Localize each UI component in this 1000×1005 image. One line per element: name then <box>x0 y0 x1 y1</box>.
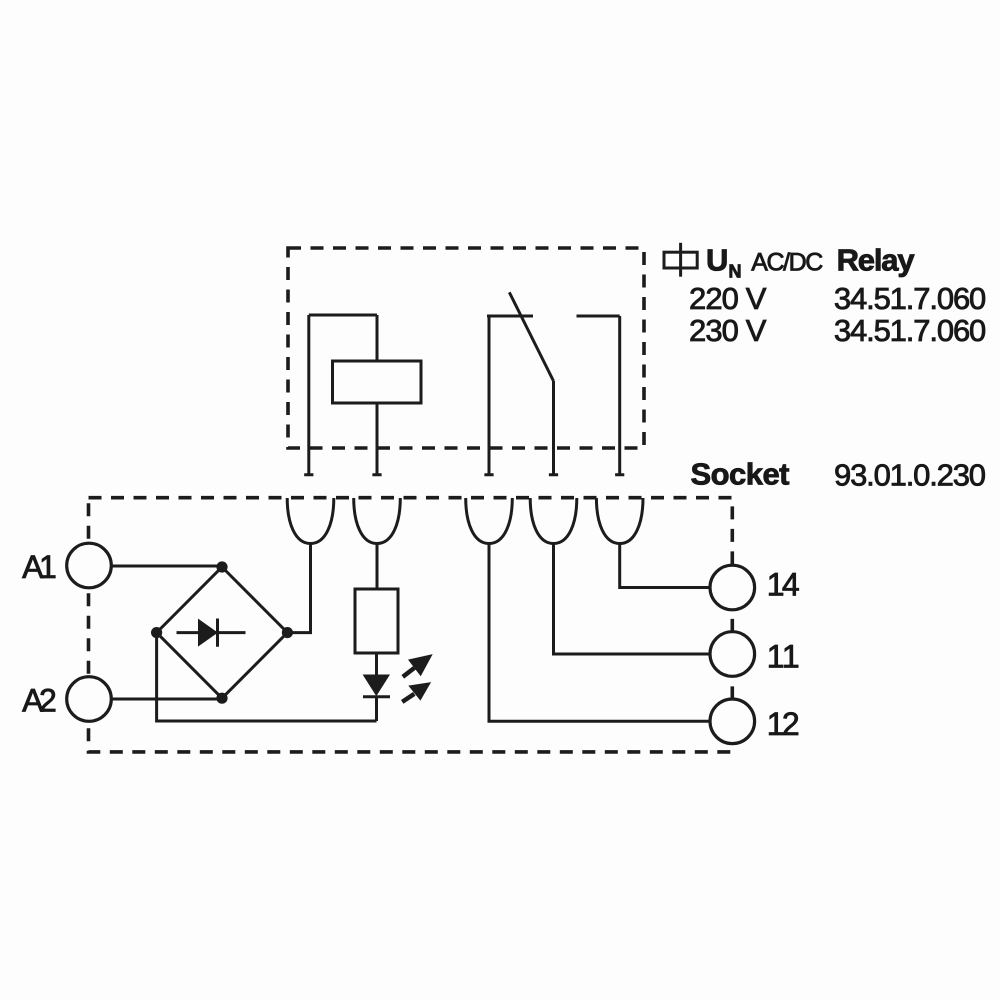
relay coil upper lead <box>376 315 379 361</box>
relay coil lead lower <box>372 403 381 475</box>
resistor R1 <box>355 589 398 653</box>
socket contact cup 4 <box>530 498 577 544</box>
wire cup1 to bridge + <box>287 544 310 633</box>
terminal A1 <box>67 543 112 588</box>
socket contact cup 5 <box>596 498 643 544</box>
contact moving lead 14 <box>549 381 558 475</box>
svg-text:220 V: 220 V <box>689 281 767 316</box>
junction dot top <box>216 561 227 572</box>
wire LED to bottom rail <box>375 697 378 721</box>
socket contact cup 2 <box>354 498 401 544</box>
relay coil body <box>333 361 422 403</box>
relay coil K lead left <box>304 315 313 475</box>
socket dashed enclosure <box>89 498 733 752</box>
socket contact cup 1 <box>287 498 334 544</box>
LED arrow 2 <box>402 682 431 702</box>
svg-text:11: 11 <box>767 639 800 675</box>
wire bridge left to bottom rail <box>157 633 377 721</box>
svg-text:14: 14 <box>767 567 800 603</box>
svg-text:34.51.7.060: 34.51.7.060 <box>834 313 986 348</box>
relay coil top wire <box>309 314 377 317</box>
LED arrow 1 <box>403 654 433 677</box>
wire cup2 to resistor <box>376 544 379 590</box>
wire A2 to bridge bottom <box>111 698 222 701</box>
contact fixed lead 12 <box>615 316 624 475</box>
svg-text:AC/DC: AC/DC <box>751 249 823 277</box>
bridge diode triangle <box>199 620 218 646</box>
svg-text:Socket: Socket <box>691 457 790 492</box>
svg-text:93.01.0.230: 93.01.0.230 <box>834 458 986 493</box>
LED triangle <box>364 675 390 695</box>
junction dot left <box>151 627 162 638</box>
svg-text:A2: A2 <box>22 683 57 719</box>
svg-text:Relay: Relay <box>837 243 916 278</box>
contact top bar left <box>487 315 533 318</box>
wire cup4 to terminal 11 <box>554 544 710 655</box>
relay dashed enclosure <box>288 248 644 448</box>
wire A1 to bridge top <box>111 565 222 568</box>
contact blade (switch arm) <box>509 292 553 381</box>
contact top bar right <box>577 315 620 318</box>
wire cup5 to terminal 14 <box>620 544 710 588</box>
svg-text:A1: A1 <box>22 549 57 585</box>
terminal A2 <box>67 677 112 722</box>
svg-text:12: 12 <box>767 706 800 742</box>
contact fixed lead 11 <box>484 316 493 475</box>
junction dot right <box>282 627 293 638</box>
bridge rectifier diamond <box>157 567 288 698</box>
coil symbol icon <box>664 243 697 277</box>
wire resistor to LED <box>375 653 378 675</box>
svg-text:230 V: 230 V <box>689 313 767 348</box>
junction dot bottom <box>216 693 227 704</box>
bridge diode bar <box>177 619 246 647</box>
wire cup3 to terminal 12 <box>489 544 710 722</box>
svg-text:34.51.7.060: 34.51.7.060 <box>834 281 986 316</box>
socket contact cup 3 <box>466 498 513 544</box>
svg-text:U: U <box>706 242 728 277</box>
LED cathode bar <box>363 695 390 698</box>
terminal 12 <box>710 699 755 744</box>
terminal 14 <box>710 565 755 610</box>
svg-text:N: N <box>729 262 742 282</box>
terminal 11 <box>710 632 755 677</box>
